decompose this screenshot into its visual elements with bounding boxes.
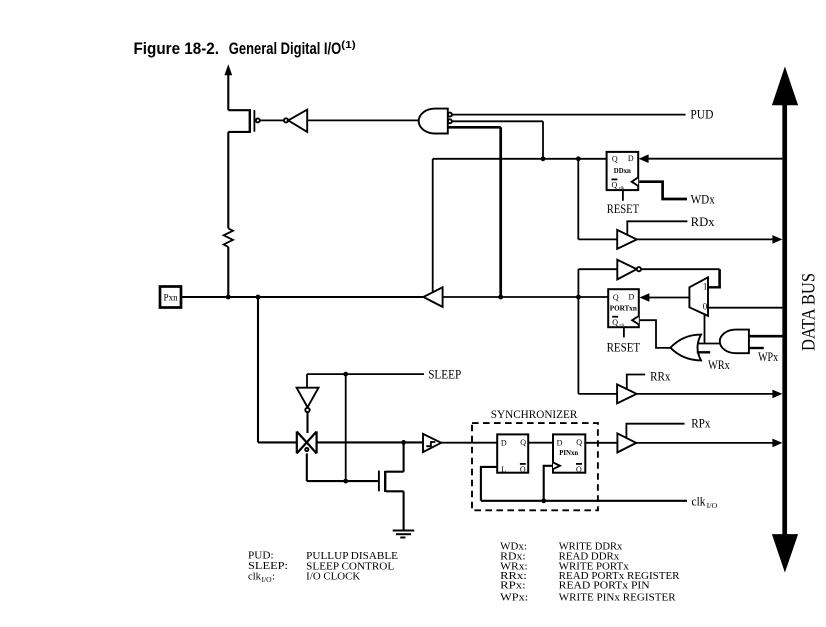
svg-text:I/O CLOCK: I/O CLOCK [306,572,360,583]
svg-text:Pxn: Pxn [164,292,179,302]
svg-text:RPx: RPx [691,417,711,431]
svg-text:Q: Q [613,293,619,302]
svg-text:D: D [628,154,634,163]
svg-text:I/O: I/O [707,502,718,510]
svg-text:Q: Q [520,465,526,474]
svg-text:PULLUP DISABLE: PULLUP DISABLE [306,551,398,562]
svg-text::: : [272,572,275,583]
svg-text:Q: Q [612,154,618,163]
svg-text:clr: clr [620,322,625,327]
svg-text:READ PORTx PIN: READ PORTx PIN [559,581,650,592]
svg-text:Q: Q [612,181,618,190]
svg-text:Q: Q [576,438,582,447]
svg-text:Q: Q [612,318,618,327]
svg-text:WRITE PINx REGISTER: WRITE PINx REGISTER [559,593,677,604]
svg-text:clk: clk [248,572,262,583]
svg-text:RPx:: RPx: [500,581,526,592]
svg-text:SLEEP CONTROL: SLEEP CONTROL [306,561,394,572]
svg-text:D: D [557,438,563,447]
svg-text:D: D [501,438,507,447]
svg-text:RDx: RDx [691,215,716,229]
svg-text:Q: Q [576,465,582,474]
svg-text:D: D [629,293,635,302]
svg-text:WPx: WPx [758,350,779,364]
svg-text:SLEEP: SLEEP [428,368,461,382]
svg-text:clk: clk [692,494,707,508]
svg-text:DATA BUS: DATA BUS [799,273,819,351]
svg-text:DDxn: DDxn [614,167,631,175]
svg-text:I/O: I/O [262,576,272,584]
svg-text:WDx: WDx [691,192,716,206]
svg-text:General Digital I/O: General Digital I/O [229,40,342,58]
svg-text:0: 0 [703,301,708,311]
svg-text:Q: Q [520,438,526,447]
svg-text:PUD: PUD [690,108,713,122]
svg-text:RESET: RESET [607,340,641,354]
svg-text:PUD:: PUD: [248,551,274,562]
svg-text:RRx: RRx [650,369,671,383]
svg-text:L: L [501,465,506,474]
svg-text:SLEEP:: SLEEP: [248,561,288,572]
svg-text:clk: clk [619,185,625,190]
svg-text:RESET: RESET [607,202,640,216]
svg-text:SYNCHRONIZER: SYNCHRONIZER [491,409,578,421]
svg-text:PINxn: PINxn [559,449,578,457]
svg-text:PORTxn: PORTxn [610,304,637,312]
svg-text:WRx: WRx [708,358,730,372]
svg-text:Figure 18-2.: Figure 18-2. [134,40,220,58]
svg-text:WPx:: WPx: [500,593,528,604]
svg-text:(1): (1) [341,39,356,51]
svg-text:1: 1 [703,282,708,292]
